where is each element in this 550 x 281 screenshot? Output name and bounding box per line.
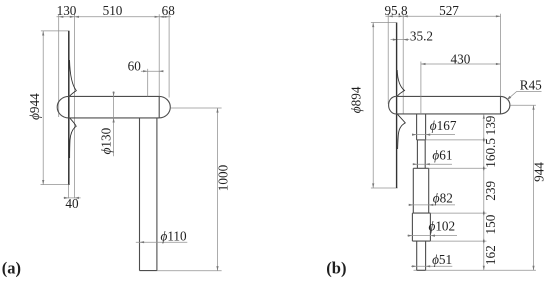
phi894 bottom extension (371, 187, 398, 189)
svg-text:139: 139 (483, 115, 498, 135)
hub end cap arc R45 (b) (501, 96, 510, 114)
extension line x=169.1 (168, 14, 170, 97)
extension line x=159.2 (158, 14, 160, 96)
phi130 dimension (113, 91, 115, 156)
svg-text:R45: R45 (520, 77, 542, 92)
shaft (a) left edge (139, 118, 141, 271)
svg-text:(a): (a) (2, 258, 21, 277)
35.2 dimension (391, 39, 410, 41)
chain dimension line (483, 114, 485, 270)
arrows 510 (74, 16, 79, 18)
arrows 95.8 (388, 15, 393, 17)
chain arrows (483, 114, 485, 119)
hub capsule (b) bottom edge (396, 113, 501, 115)
phi82 label (411, 204, 455, 206)
phi51 label (411, 265, 452, 267)
svg-text:150: 150 (483, 214, 498, 234)
svg-text:95.8: 95.8 (384, 3, 407, 18)
extension line x=403.2 (402, 14, 404, 114)
svg-text:1000: 1000 (216, 164, 231, 191)
phi894 dimension line (372, 23, 374, 189)
phi944 bottom extension (41, 184, 70, 186)
svg-text:160.5: 160.5 (483, 138, 498, 168)
phi894 top extension (371, 22, 396, 24)
944 dimension (533, 105, 535, 270)
blade (a) upper cusp (70, 60, 77, 96)
extension line x=74.4 (73, 14, 75, 198)
shaft (a) right edge (156, 118, 158, 271)
svg-text:ϕ82: ϕ82 (433, 190, 453, 205)
shaft section C phi82 (412, 168, 414, 213)
phi102 label (408, 235, 458, 237)
944 top extension (511, 104, 536, 106)
svg-text:430: 430 (451, 52, 471, 67)
hub capsule (a) top edge (69, 95, 160, 97)
hub capsule (a) bottom edge (69, 117, 160, 119)
svg-text:ϕ130: ϕ130 (99, 127, 114, 154)
hub body end line (a) (158, 96, 160, 118)
phi110 leader (136, 241, 188, 243)
svg-text:ϕ894: ϕ894 (348, 86, 363, 113)
svg-text:60: 60 (128, 58, 142, 73)
svg-text:510: 510 (103, 3, 123, 18)
hub nose arc (b) (389, 96, 396, 114)
dimension line top (95.8 / 527) (386, 15, 501, 17)
svg-text:40: 40 (65, 196, 79, 211)
1000 bottom extension (157, 270, 222, 272)
svg-text:130: 130 (57, 3, 77, 18)
dimension line top (130 / 510 / 68) (57, 16, 172, 18)
svg-text:ϕ51: ϕ51 (432, 252, 452, 267)
arrows 527 (403, 15, 408, 17)
extension line x=388.2 (387, 14, 389, 104)
hub end cap arc (a) (159, 96, 170, 118)
blade (a) lower cusp (70, 118, 77, 158)
blade (b) lower cusp (397, 114, 405, 149)
svg-text:ϕ61: ϕ61 (432, 148, 452, 163)
svg-text:ϕ167: ϕ167 (430, 118, 457, 133)
hub body end line (b) (500, 96, 502, 114)
svg-text:162: 162 (483, 245, 498, 265)
phi944 dimension line (42, 31, 44, 185)
blade (a) main line (68, 31, 70, 185)
hub capsule (b) top edge (396, 95, 501, 97)
shaft section E phi51 (416, 241, 418, 270)
60 dimension (141, 70, 162, 72)
svg-text:(b): (b) (326, 258, 346, 277)
phi944 top extension (41, 30, 70, 32)
shaft section A phi167 (416, 114, 418, 140)
svg-text:944: 944 (532, 162, 547, 182)
1000 dimension (217, 108, 219, 271)
430 dimension (421, 63, 501, 65)
phi61 label (413, 163, 452, 165)
blade (b) main line (396, 23, 398, 189)
svg-text:ϕ110: ϕ110 (161, 228, 188, 243)
R45 label and leader (516, 91, 541, 93)
944 bottom extension (414, 269, 536, 271)
shaft (a) bottom edge (140, 270, 157, 272)
40 dimension (68, 185, 70, 199)
hub nose arc (a) (57, 96, 68, 118)
extension line x=500.5 (500, 14, 502, 97)
chain extension lines (426, 139, 487, 141)
shaft section D phi102 (411, 213, 413, 241)
1000 top extension (171, 107, 222, 109)
svg-text:ϕ102: ϕ102 (429, 219, 456, 234)
blade (b) upper cusp (397, 70, 404, 96)
arrows 130 (59, 16, 64, 18)
phi167 label (413, 134, 455, 136)
arrows 68 (159, 16, 164, 18)
svg-text:527: 527 (439, 3, 459, 18)
shaft section B phi61 (416, 140, 418, 168)
svg-text:ϕ944: ϕ944 (27, 93, 42, 120)
svg-text:35.2: 35.2 (410, 28, 433, 43)
extension line x=58.7 (58, 14, 60, 117)
svg-text:68: 68 (162, 3, 176, 18)
svg-text:239: 239 (483, 181, 498, 201)
